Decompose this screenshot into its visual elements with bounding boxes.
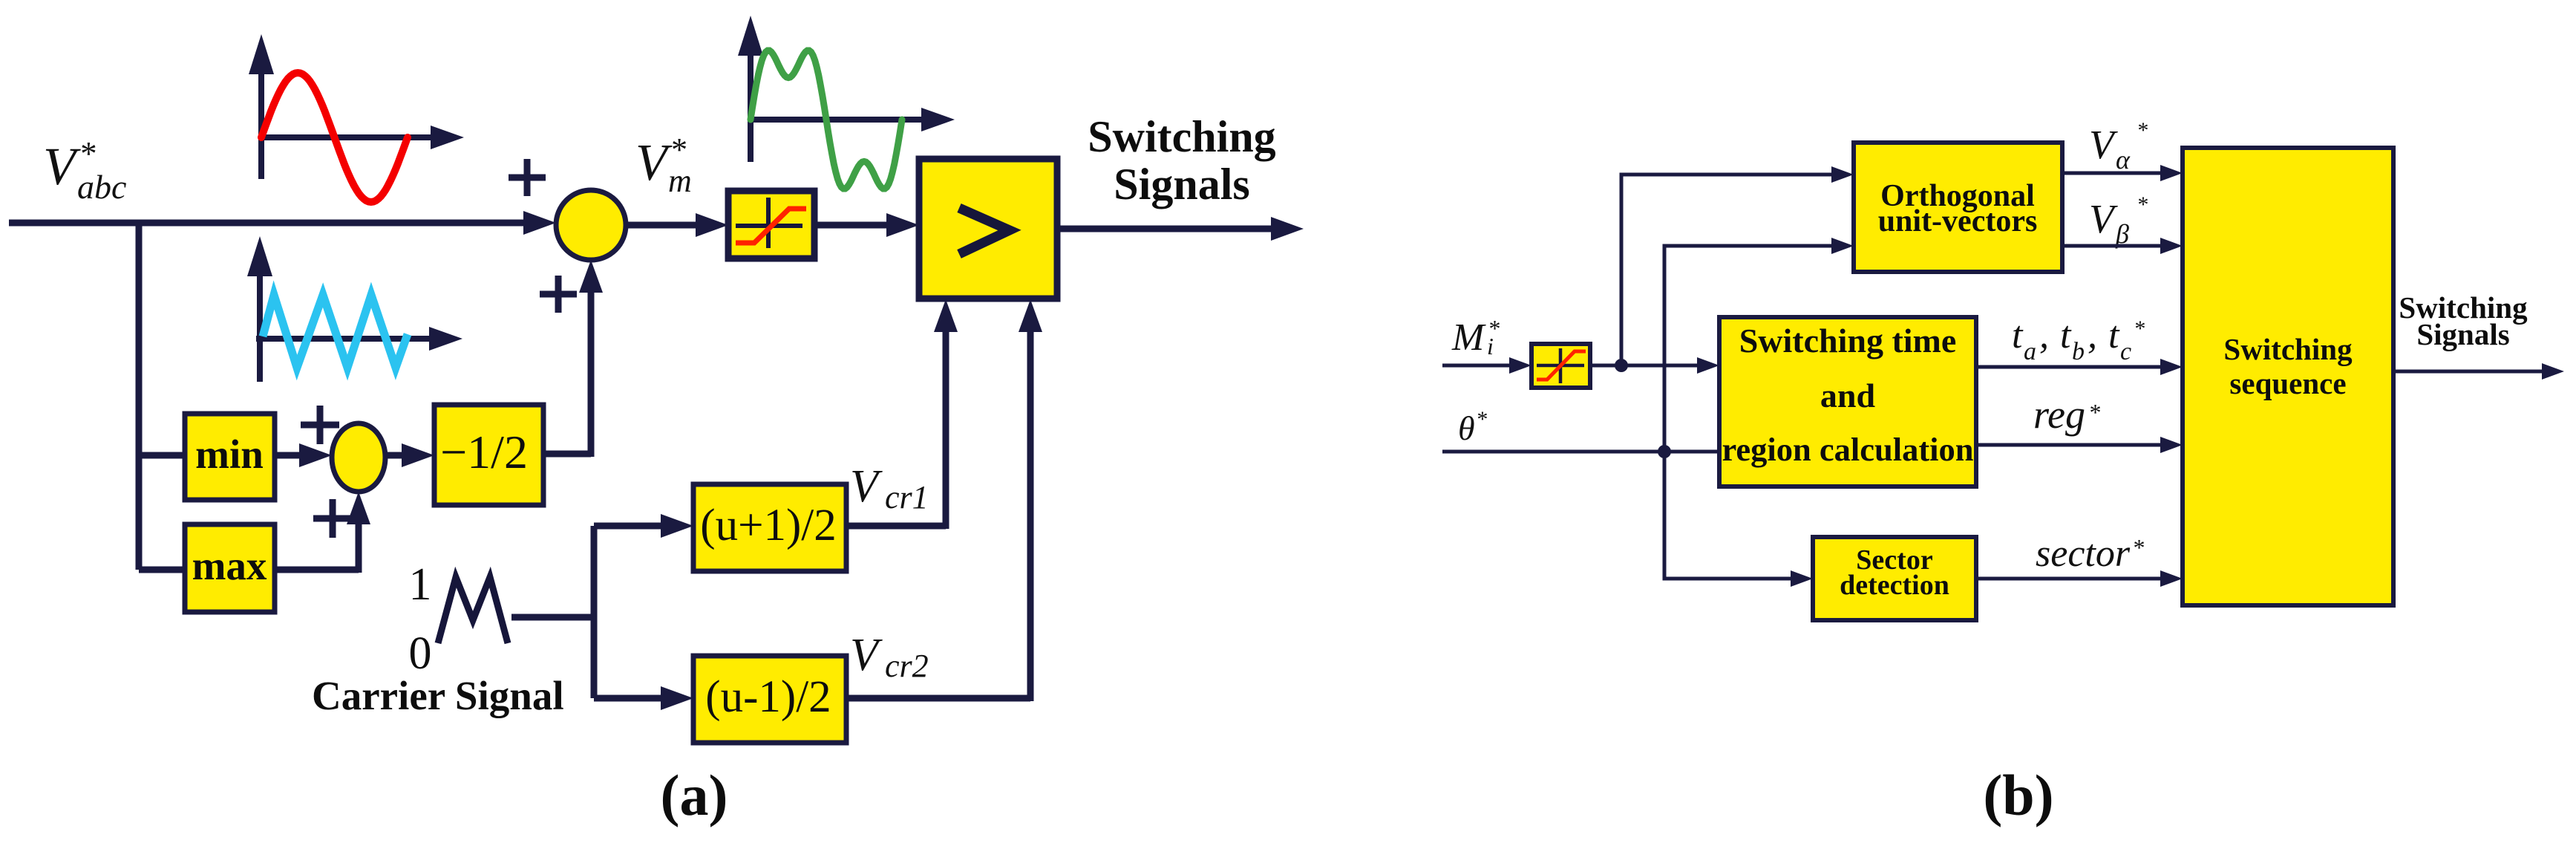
plus sign small ellipse top: [301, 406, 339, 444]
plus sign small ellipse bottom: [313, 499, 352, 538]
svg-text:*: *: [79, 135, 96, 172]
block switching time and region calculation: [1719, 317, 1976, 487]
svg-text:(b): (b): [1983, 763, 2053, 827]
wire theta input: [1442, 450, 1719, 454]
svg-text:*: *: [2137, 192, 2148, 217]
node theta label: [1458, 407, 1487, 447]
svg-text:t: t: [2108, 314, 2120, 357]
wire carrier to u-blocks: [511, 526, 662, 698]
wire ellipse to -1/2 block: [385, 443, 434, 467]
svg-text:m: m: [668, 163, 692, 199]
svg-text:*: *: [2088, 399, 2100, 426]
svg-text:b: b: [2072, 338, 2085, 365]
svg-text:cr2: cr2: [885, 648, 929, 684]
block max: [185, 524, 275, 612]
arrow into (u-1)/2: [661, 686, 693, 710]
wire theta branch to sector detection: [1664, 452, 1813, 587]
block (u+1)/2: [693, 484, 846, 571]
svg-text:−1/2: −1/2: [440, 426, 528, 478]
label Vbeta: [2089, 192, 2148, 249]
block (u-1)/2: [693, 656, 846, 743]
block sector detection: [1813, 537, 1976, 620]
label reg: [2033, 392, 2100, 437]
wire sector: [1976, 570, 2183, 587]
wire Vbeta: [2062, 238, 2183, 254]
svg-text:1: 1: [409, 559, 432, 610]
wire main Vabc horizontal line: [9, 211, 556, 235]
svg-text:i: i: [1487, 333, 1494, 359]
svg-text:detection: detection: [1840, 570, 1949, 601]
summing junction circle: [556, 190, 626, 260]
label sector: [2036, 533, 2144, 575]
svg-text:M: M: [1451, 316, 1486, 359]
wire -1/2 to summing junction: [543, 260, 603, 457]
wire saturation to switching-time block: [1590, 357, 1719, 374]
wire min feed: [139, 452, 185, 459]
svg-text:V: V: [2089, 122, 2118, 167]
junction dot on theta line: [1658, 445, 1671, 458]
plus sign at summing junction top input: [509, 159, 546, 196]
saturation block U2 (small): [1531, 344, 1590, 388]
svg-text:a: a: [2024, 338, 2036, 365]
reference sine plot axes: [249, 34, 464, 179]
wire Mi input: [1442, 357, 1531, 374]
wire branch vertical from Vabc to min/max: [136, 220, 143, 570]
svg-text:V: V: [850, 630, 883, 680]
label Vcr2: [850, 630, 929, 684]
wire (u+1)/2 to comparator: [846, 299, 958, 529]
svg-text:V: V: [635, 134, 673, 192]
svg-text:max: max: [192, 543, 267, 588]
svg-text:reg: reg: [2033, 392, 2085, 437]
wire (u-1)/2 to comparator: [846, 299, 1042, 701]
wire ta tb tc: [1976, 359, 2183, 375]
wire comparator output Switching Signals: [1057, 217, 1304, 241]
svg-text:(u-1)/2: (u-1)/2: [705, 672, 831, 722]
svg-text:Signals: Signals: [2416, 317, 2509, 351]
saturation block U1: [728, 191, 814, 258]
label ta tb tc: [2012, 314, 2145, 365]
wire max to small summing ellipse: [275, 492, 370, 573]
svg-text:Switching: Switching: [1088, 112, 1275, 161]
wire theta branch to orthogonal block: [1664, 238, 1854, 452]
svg-text:sector: sector: [2036, 533, 2131, 575]
svg-text:,: ,: [2039, 314, 2049, 357]
svg-text:t: t: [2060, 314, 2072, 357]
svg-text:Carrier Signal: Carrier Signal: [312, 673, 564, 718]
label Vcr1: [850, 461, 929, 515]
svg-text:θ: θ: [1458, 409, 1475, 447]
svg-text:sequence: sequence: [2229, 366, 2346, 400]
svg-text:Switching time: Switching time: [1739, 322, 1957, 359]
svg-text:abc: abc: [77, 168, 126, 206]
wire max feed: [139, 567, 185, 573]
svg-text:Signals: Signals: [1114, 160, 1249, 209]
svg-text:0: 0: [409, 628, 432, 679]
wire saturation to comparator: [814, 213, 919, 237]
modulated wave plot axes (green plot): [738, 16, 955, 162]
wire output Switching Signals (b): [2393, 363, 2564, 380]
svg-text:α: α: [2116, 145, 2131, 175]
svg-text:(u+1)/2: (u+1)/2: [700, 501, 836, 550]
svg-text:min: min: [195, 432, 264, 477]
svg-text:cr1: cr1: [885, 479, 929, 515]
carrier triangle waveform (cyan): [263, 295, 408, 368]
svg-text:*: *: [2134, 316, 2145, 341]
wire Mi branch to orthogonal block: [1621, 166, 1854, 365]
svg-text:c: c: [2120, 338, 2131, 365]
block -1/2: [434, 405, 543, 505]
svg-text:region calculation: region calculation: [1722, 431, 1973, 468]
node Mi label: [1451, 315, 1500, 359]
svg-text:Switching: Switching: [2223, 332, 2353, 366]
svg-text:t: t: [2012, 314, 2024, 357]
modulated waveform (green): [751, 51, 902, 189]
wire summing junction to saturation block: [626, 213, 728, 237]
comparator block: [919, 159, 1057, 299]
label Switching Signals (a): [1088, 112, 1275, 209]
junction dot on Mi line: [1615, 359, 1628, 372]
block orthogonal unit-vectors: [1854, 143, 2062, 272]
svg-text:*: *: [1476, 407, 1487, 432]
svg-text:V: V: [2089, 196, 2118, 241]
label Valpha: [2089, 118, 2148, 175]
carrier triangle plot axes (cyan plot): [247, 236, 462, 382]
plus sign at summing junction bottom input: [540, 276, 577, 313]
svg-text:*: *: [2132, 534, 2144, 561]
svg-text:and: and: [1820, 377, 1876, 414]
svg-text:*: *: [2137, 118, 2148, 143]
small summing ellipse: [332, 423, 385, 492]
svg-text:unit-vectors: unit-vectors: [1878, 204, 2038, 238]
carrier source symbol M: [438, 577, 508, 643]
wire Valpha: [2062, 165, 2183, 181]
block switching sequence: [2183, 148, 2393, 605]
reference sine waveform (red): [261, 73, 408, 202]
block min: [185, 414, 275, 500]
node Vabc input label: [43, 135, 126, 206]
svg-text:(a): (a): [661, 763, 728, 827]
wire reg: [1976, 437, 2183, 453]
label Switching Signals (b): [2399, 290, 2528, 351]
svg-text:,: ,: [2088, 314, 2097, 357]
svg-text:V: V: [43, 137, 81, 196]
arrow into (u+1)/2: [661, 514, 693, 538]
svg-text:V: V: [850, 461, 883, 512]
wire min to small summing ellipse: [275, 443, 332, 467]
node Vm label: [635, 131, 692, 199]
